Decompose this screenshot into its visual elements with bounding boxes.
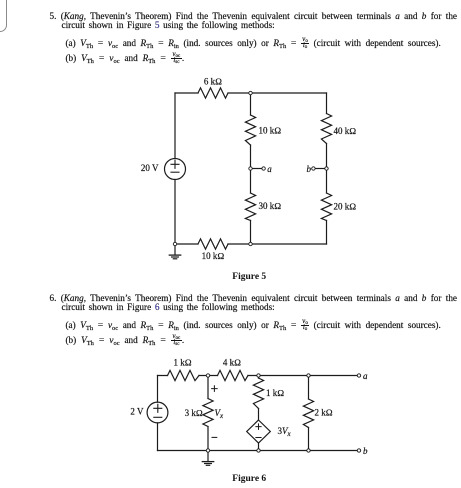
figure 5 (130, 75, 375, 270)
node bottom-middle (249, 242, 252, 245)
resistor R9 3k vertical (203, 399, 213, 427)
svg-text:6 kΩ: 6 kΩ (204, 76, 222, 86)
terminal b circle (357, 449, 360, 452)
terminal a circle (357, 374, 360, 377)
node bottom 2k (307, 449, 310, 452)
wire bottom (175, 243, 327, 245)
wire 2k branch (308, 376, 310, 451)
wire dep branch (258, 376, 260, 421)
node a (249, 167, 252, 170)
voltage source V2 2V (147, 402, 168, 423)
resistor R7 1k horizontal (168, 370, 200, 380)
resistor R2 10k vertical (245, 115, 255, 145)
node dots (173, 91, 328, 245)
resistor R4 40k vertical (321, 114, 331, 144)
wire right vertical (326, 93, 328, 244)
label Vx minus (212, 436, 218, 438)
resistor R1 6k horizontal (198, 88, 228, 98)
svg-text:a: a (363, 371, 368, 381)
voltage source V1 20V (165, 159, 186, 180)
resistor R6 10k horizontal bottom (198, 239, 228, 249)
problem 6 text (50, 293, 458, 303)
svg-text:3 kΩ: 3 kΩ (185, 408, 203, 418)
resistor R3 30k vertical (245, 193, 255, 221)
node bottom-left (173, 242, 176, 245)
svg-text:a: a (267, 164, 272, 174)
svg-text:Vx: Vx (215, 408, 225, 420)
svg-text:3Vx: 3Vx (278, 426, 292, 438)
dependent source U1 diamond 3Vx (247, 420, 271, 443)
svg-text:b: b (363, 446, 368, 456)
node bottom ground (206, 449, 209, 452)
node b junction (325, 167, 328, 170)
wire top (175, 92, 327, 94)
caption figure 6 (232, 474, 266, 484)
terminal b stub (315, 168, 325, 170)
svg-text:20 V: 20 V (141, 163, 159, 173)
wire middle branch lower (250, 170, 252, 244)
ground (207, 452, 209, 461)
resistor R11 2k vertical (303, 399, 313, 428)
wire left vertical (174, 93, 176, 244)
terminal a circle (262, 167, 265, 170)
node after 1k (206, 374, 209, 377)
problem 5 text (50, 11, 458, 21)
svg-text:30 kΩ: 30 kΩ (259, 201, 282, 211)
svg-text:2 kΩ: 2 kΩ (315, 407, 333, 417)
svg-text:b: b (307, 164, 312, 174)
svg-text:10 kΩ: 10 kΩ (202, 251, 225, 261)
node top-middle (249, 91, 252, 94)
wire left vertical (157, 376, 159, 451)
resistor R10 1k vertical (253, 378, 263, 409)
resistor R8 4k horizontal (218, 370, 249, 380)
svg-text:2 V: 2 V (130, 407, 144, 417)
node bottom dep (257, 449, 260, 452)
figure 6 (124, 355, 386, 477)
svg-text:4 kΩ: 4 kΩ (223, 358, 241, 368)
svg-text:1 kΩ: 1 kΩ (174, 358, 192, 368)
page corner artifact top-left (0, 0, 7, 32)
terminal a stub (252, 168, 262, 170)
svg-text:40 kΩ: 40 kΩ (334, 126, 357, 136)
svg-text:20 kΩ: 20 kΩ (334, 202, 357, 212)
wire top (158, 375, 358, 377)
caption figure 5 (232, 272, 266, 282)
label Vx plus (211, 385, 218, 392)
node after 4k (257, 374, 260, 377)
wire bottom (158, 450, 358, 452)
terminal b circle (312, 167, 315, 170)
ground (174, 246, 176, 255)
node dots (206, 374, 360, 452)
svg-text:1 kΩ: 1 kΩ (266, 388, 284, 398)
node top 2k (307, 374, 310, 377)
resistor R5 20k vertical (321, 193, 331, 221)
svg-text:10 kΩ: 10 kΩ (259, 125, 282, 135)
wire middle branch upper (250, 93, 252, 167)
wire 3k branch (207, 376, 209, 451)
